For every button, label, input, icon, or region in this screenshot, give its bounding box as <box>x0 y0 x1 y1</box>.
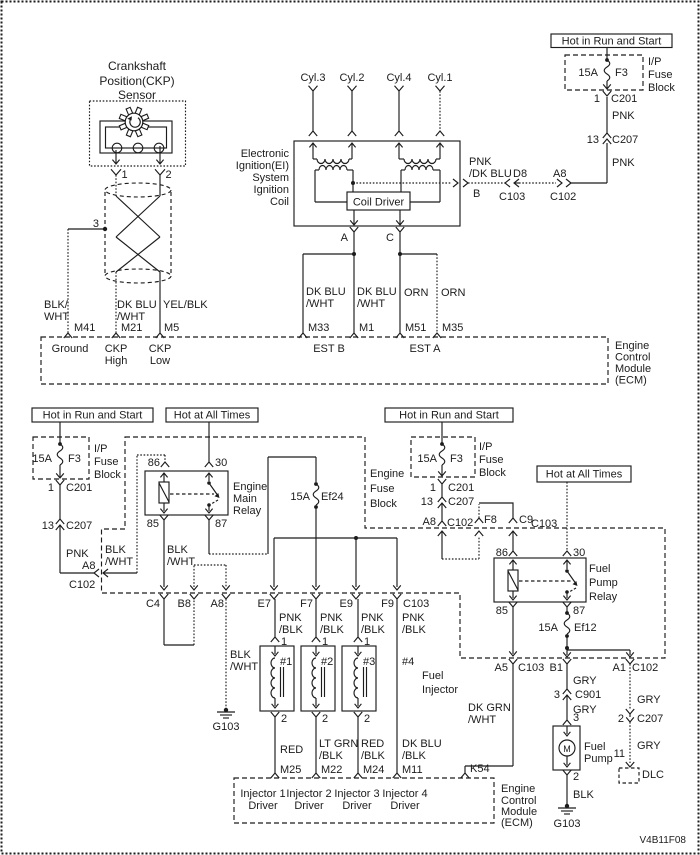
wire B to C103 (dotted) <box>468 182 505 184</box>
wire A8 to ground G103 (dotted) <box>225 599 227 710</box>
svg-text:A8: A8 <box>423 516 436 528</box>
label I/P Fuse Block (mid right) <box>479 441 506 479</box>
svg-text:M: M <box>563 744 571 754</box>
svg-text:D8: D8 <box>513 168 527 180</box>
fuse Ef24 15A <box>290 482 343 509</box>
svg-text:Cyl.4: Cyl.4 <box>386 72 411 84</box>
svg-text:Fuel: Fuel <box>584 741 605 753</box>
coil tower fork Cyl.3 <box>309 131 317 136</box>
fuse Ef12 15A <box>538 611 596 638</box>
svg-text:Pump: Pump <box>584 753 613 765</box>
svg-text:Main: Main <box>233 493 257 505</box>
connector C103 cavity E9 <box>340 594 361 610</box>
I/P fuse block box (top right) <box>565 55 643 90</box>
svg-text:Pump: Pump <box>589 577 618 589</box>
svg-text:3: 3 <box>573 712 579 724</box>
wire C207-C102 (mid right) <box>441 503 443 521</box>
svg-text:/BLK: /BLK <box>361 624 386 636</box>
svg-text:Relay: Relay <box>589 591 618 603</box>
label BLK/WHT (relay 85) <box>167 544 195 568</box>
engine main relay pin 86 <box>148 457 169 469</box>
svg-text:PNK: PNK <box>279 612 302 624</box>
label PNK/BLK F9 <box>402 612 427 636</box>
connector C102 cavity A8 (mid right) <box>423 516 474 529</box>
label Engine Control Module (ECM) top <box>615 340 651 387</box>
svg-text:Position(CKP): Position(CKP) <box>99 74 174 88</box>
primary winding 2 <box>401 166 440 203</box>
svg-text:I/P: I/P <box>648 56 661 68</box>
coil terminal C <box>386 227 404 244</box>
svg-text:BLK: BLK <box>167 544 188 556</box>
svg-text:Control: Control <box>615 352 650 364</box>
svg-text:M11: M11 <box>402 764 423 776</box>
wire relay87 to Ef12 <box>566 607 568 613</box>
svg-text:3: 3 <box>93 218 99 230</box>
wire bus drop E9 <box>352 538 360 590</box>
twisted pair crossover <box>116 196 160 272</box>
svg-text:Injector: Injector <box>422 684 458 696</box>
label BLK/WHT (C102 right) <box>105 544 133 568</box>
svg-text:Driver: Driver <box>248 800 278 812</box>
svg-text:15A: 15A <box>290 491 310 503</box>
wire injector 3 to ECM <box>357 717 359 773</box>
wire injector 1 to ECM <box>274 717 276 773</box>
label DK BLU/WHT (M33) <box>306 286 346 310</box>
svg-text:F3: F3 <box>450 453 463 465</box>
svg-text:30: 30 <box>215 457 227 469</box>
injector supply bus <box>274 537 397 539</box>
coil driver U-box <box>347 192 410 210</box>
svg-text:M1: M1 <box>359 322 374 334</box>
svg-text:Electronic: Electronic <box>241 148 290 160</box>
svg-text:High: High <box>105 355 128 367</box>
wire Cyl.1 to coil (dotted) <box>439 91 441 131</box>
engine main relay switch <box>205 473 219 513</box>
label Injector 1 Driver <box>240 788 285 812</box>
svg-text:C103: C103 <box>531 518 557 530</box>
svg-text:K54: K54 <box>470 763 490 775</box>
svg-text:Fuse: Fuse <box>479 454 503 466</box>
wire Hot at All Times to relay 30 <box>208 422 210 462</box>
connector C102 cavity A8 <box>550 168 576 203</box>
wire Ef12 to B1 junction <box>566 636 568 648</box>
svg-text:C901: C901 <box>575 689 601 701</box>
node injector bus E9 junction <box>354 536 358 540</box>
svg-text:Fuel: Fuel <box>589 563 610 575</box>
fuel pump relay pin 87 <box>563 602 585 617</box>
CKP sensor inner housing <box>100 121 172 153</box>
label DK BLU/WHT <box>117 299 157 323</box>
svg-text:C102: C102 <box>550 191 576 203</box>
svg-text:PNK: PNK <box>402 612 425 624</box>
svg-text:M24: M24 <box>363 764 384 776</box>
svg-text:I/P: I/P <box>94 443 107 455</box>
connector C207 cavity 13 (mid right) <box>421 496 475 508</box>
svg-text:V4B11F08: V4B11F08 <box>639 835 686 846</box>
connector C102 (mid left) <box>69 569 108 591</box>
I/P fuse block box (mid right) <box>411 437 475 477</box>
svg-text:11: 11 <box>614 748 625 760</box>
svg-text:YEL/BLK: YEL/BLK <box>163 299 208 311</box>
wire B1 to C901 <box>566 664 568 689</box>
svg-text:BLK: BLK <box>105 544 126 556</box>
ground G103 (left) <box>213 708 240 733</box>
node primary1 / EST feed junction <box>351 181 355 185</box>
svg-text:Hot in Run and Start: Hot in Run and Start <box>399 410 499 422</box>
coil terminal B <box>463 179 480 200</box>
svg-text:15A: 15A <box>32 453 52 465</box>
fuel pump relay U-box <box>494 558 586 602</box>
EI ignition coil box <box>294 141 460 226</box>
label BLK/WHT <box>44 299 69 323</box>
wire EST A ORN <box>399 232 401 333</box>
svg-text:(ECM): (ECM) <box>615 375 647 387</box>
label DK GRN/WHT <box>468 702 511 726</box>
label Engine Fuse Block (left) <box>370 468 404 510</box>
fuel injector #1 box <box>260 646 294 711</box>
svg-text:2: 2 <box>281 713 287 725</box>
injector 3 pin 1 <box>354 636 370 648</box>
pin M24 <box>354 764 385 778</box>
injector 1 pin 1 <box>271 636 287 648</box>
label PNK/DK BLU <box>469 156 512 180</box>
svg-text:RED: RED <box>361 738 384 750</box>
Hot in Run and Start box (top right) <box>551 34 672 48</box>
label Fuel Pump <box>584 741 613 765</box>
svg-text:Driver: Driver <box>342 800 372 812</box>
wire to F3 mid-left <box>59 422 61 443</box>
svg-text:86: 86 <box>148 457 160 469</box>
svg-text:RED: RED <box>280 744 303 756</box>
svg-text:EST A: EST A <box>410 343 442 355</box>
coil internal arrow Cyl.1 <box>436 143 443 159</box>
svg-text:2: 2 <box>618 713 624 725</box>
label DK BLU/BLK <box>402 738 442 762</box>
svg-text:3: 3 <box>554 689 560 701</box>
connector C103 cavity E7 <box>258 594 279 610</box>
wire BLK/WHT C102 to relay 86 (dotted) <box>103 455 165 573</box>
svg-text:Ground: Ground <box>52 343 89 355</box>
svg-text:(ECM): (ECM) <box>501 817 533 829</box>
svg-text:F9: F9 <box>381 598 394 610</box>
CKP sensor outer box <box>90 101 186 166</box>
svg-text:86: 86 <box>496 547 508 559</box>
wire CKP High from pin1 (dotted) <box>115 175 117 196</box>
svg-text:M25: M25 <box>280 764 301 776</box>
fuse block cavity C9 <box>509 514 533 526</box>
svg-text:Ignition: Ignition <box>254 184 289 196</box>
wire bus drop F9 <box>393 538 401 590</box>
Hot at All Times box (mid) <box>166 408 258 422</box>
secondary winding 1 (Cyl.3-Cyl.2) <box>313 159 352 164</box>
svg-text:C102: C102 <box>447 517 473 529</box>
svg-text:C4: C4 <box>146 598 160 610</box>
svg-text:C102: C102 <box>69 579 95 591</box>
svg-text:1: 1 <box>48 482 54 494</box>
svg-text:DK BLU: DK BLU <box>357 286 397 298</box>
svg-text:Engine: Engine <box>233 481 267 493</box>
fuel pump pin 3 <box>563 712 579 725</box>
wire branch to A1 <box>567 650 634 657</box>
jumper B8 to A8 (above C103, dotted) <box>190 565 230 590</box>
svg-text:M22: M22 <box>321 764 342 776</box>
fuse F3 15A <box>578 58 627 81</box>
coil tower fork Cyl.4 <box>395 131 403 136</box>
svg-text:/BLK: /BLK <box>279 624 304 636</box>
svg-text:A: A <box>341 232 349 244</box>
wire coil output C <box>396 210 404 225</box>
svg-text:/WHT: /WHT <box>306 298 334 310</box>
wire EST A branch to M35 (dotted) <box>400 254 437 333</box>
injector 2 internal <box>312 646 325 708</box>
fuel pump relay actuation line <box>519 580 572 582</box>
Hot in Run and Start box (mid left) <box>32 408 153 422</box>
svg-text:C103: C103 <box>518 662 544 674</box>
svg-text:#2: #2 <box>321 656 333 668</box>
svg-text:Fuse: Fuse <box>370 483 394 495</box>
svg-text:GRY: GRY <box>637 694 661 706</box>
label Fuel Pump Relay <box>589 563 618 603</box>
engine main relay coil <box>159 473 169 513</box>
svg-text:15A: 15A <box>578 67 598 79</box>
svg-text:Hot in Run and Start: Hot in Run and Start <box>562 36 662 48</box>
fuse block cavity F8 <box>475 504 497 526</box>
coil tower fork Cyl.1 <box>436 131 444 136</box>
svg-text:2: 2 <box>166 169 172 181</box>
shield cylinder (drain wire screen) <box>105 183 171 283</box>
svg-text:PNK: PNK <box>361 612 384 624</box>
wire B1 arrow <box>563 648 571 657</box>
wire C103 to injector 3 pin 1 <box>357 599 359 637</box>
wire C201-C207 (mid right) <box>441 484 443 497</box>
svg-text:Cyl.3: Cyl.3 <box>300 72 325 84</box>
wire C103 to C102 (dotted) <box>519 182 556 184</box>
injector 3 internal <box>354 646 367 708</box>
label Engine Main Relay <box>233 481 267 517</box>
Hot in Run and Start box (mid right) <box>385 408 513 422</box>
svg-text:87: 87 <box>215 518 227 530</box>
connector C103 cavity C4 <box>146 594 168 610</box>
svg-text:C207: C207 <box>612 134 638 146</box>
svg-text:G103: G103 <box>213 721 240 733</box>
svg-text:/BLK: /BLK <box>320 624 345 636</box>
label Fuel Injector <box>422 670 458 696</box>
CKP output arrow pin1 <box>112 150 119 164</box>
fuel pump relay pin 86 <box>496 547 517 559</box>
svg-text:BLK/: BLK/ <box>44 299 69 311</box>
wire C9 to fuel pump relay 86 <box>509 531 517 551</box>
svg-text:C201: C201 <box>611 93 637 105</box>
label I/P Fuse Block (top right) <box>648 56 675 94</box>
svg-text:30: 30 <box>573 547 585 559</box>
svg-text:PNK: PNK <box>612 157 635 169</box>
fuel pump pin 2 <box>563 770 579 783</box>
svg-text:C: C <box>386 232 394 244</box>
connector C901 cavity 3 <box>554 689 601 701</box>
wire coil output A <box>350 210 358 225</box>
wire C201 to C207 PNK <box>606 97 608 133</box>
svg-text:System: System <box>252 172 289 184</box>
svg-text:M41: M41 <box>74 322 95 334</box>
svg-text:Block: Block <box>94 469 121 481</box>
injector 1 pin 2 <box>271 712 287 725</box>
pin M33 <box>299 322 330 338</box>
pin M35 <box>433 322 464 338</box>
wire C201-C207 (mid left) <box>59 485 61 519</box>
svg-text:Hot in Run and Start: Hot in Run and Start <box>43 410 143 422</box>
svg-text:M5: M5 <box>164 322 179 334</box>
svg-text:Hot at All Times: Hot at All Times <box>174 410 251 422</box>
Cyl.2 terminal fork <box>348 86 357 91</box>
svg-text:A5: A5 <box>495 662 508 674</box>
svg-text:Cyl.1: Cyl.1 <box>427 72 452 84</box>
svg-text:C207: C207 <box>637 713 663 725</box>
svg-text:BLK: BLK <box>230 649 251 661</box>
svg-text:Driver: Driver <box>294 800 324 812</box>
svg-text:Hot at All Times: Hot at All Times <box>546 469 623 481</box>
wire Ef24 to injector bus <box>315 507 317 587</box>
connector C103 cavity B1 <box>550 659 572 674</box>
svg-text:Injector 2: Injector 2 <box>286 788 331 800</box>
svg-text:I/P: I/P <box>479 441 492 453</box>
label PNK/BLK E7 <box>279 612 304 636</box>
svg-text:Coil: Coil <box>270 196 289 208</box>
svg-text:1: 1 <box>122 169 128 181</box>
svg-text:A8: A8 <box>553 168 566 180</box>
svg-text:Crankshaft: Crankshaft <box>108 59 167 73</box>
svg-text:Fuse: Fuse <box>648 69 672 81</box>
fuel pump relay pin 85 <box>496 602 517 617</box>
svg-text:15A: 15A <box>538 622 558 634</box>
svg-text:E7: E7 <box>258 598 271 610</box>
svg-text:EST B: EST B <box>313 343 345 355</box>
svg-text:Engine: Engine <box>615 340 649 352</box>
connector C102 cavity A1 <box>613 659 659 674</box>
label LT GRN/BLK <box>319 738 358 762</box>
DLC box <box>619 768 639 783</box>
Cyl.1 terminal fork <box>436 86 445 91</box>
label I/P Fuse Block (mid left) <box>94 443 121 481</box>
fuel injector #2 box <box>301 646 335 711</box>
label DK BLU/WHT (M1) <box>357 286 397 310</box>
svg-text:C207: C207 <box>448 496 474 508</box>
pin M1 <box>350 322 374 338</box>
fuse block arrow out (mid left) <box>56 465 64 478</box>
svg-text:C102: C102 <box>632 662 658 674</box>
pin M22 <box>312 764 343 778</box>
DLC pin 11 <box>614 748 635 767</box>
pin M41 <box>64 322 96 338</box>
wire CKP High below shield (dotted) <box>115 272 117 333</box>
svg-text:Relay: Relay <box>233 505 262 517</box>
svg-text:/WHT: /WHT <box>230 661 258 673</box>
coil tower fork Cyl.2 <box>348 131 356 136</box>
connector C207 cavity 13 (mid left) <box>42 519 93 532</box>
svg-text:F7: F7 <box>300 598 313 610</box>
fuse block arrow out (mid right) <box>438 465 446 476</box>
engine main relay pin 85 <box>147 515 168 530</box>
ECM box (bottom) <box>234 778 494 823</box>
fuel pump motor <box>559 726 575 767</box>
fuse F3 15A (mid right) <box>417 442 462 465</box>
I/P fuse block box (mid left) <box>33 437 89 479</box>
pin M21 <box>112 322 143 338</box>
wire C207 to DLC (dotted) <box>629 722 631 763</box>
wire C103 to injector 2 pin 1 <box>315 599 317 637</box>
connector C103 cavity F9 <box>381 594 401 610</box>
svg-text:Engine: Engine <box>370 468 404 480</box>
svg-text:Driver: Driver <box>390 800 420 812</box>
connector C103 cavity A5 <box>495 659 545 674</box>
svg-text:ORN: ORN <box>441 287 466 299</box>
svg-text:DK GRN: DK GRN <box>468 702 511 714</box>
fuel injector #3 box <box>342 646 376 711</box>
label BLK/WHT (A8 ground) <box>230 649 258 673</box>
svg-text:/BLK: /BLK <box>361 750 386 762</box>
svg-text:15A: 15A <box>417 453 437 465</box>
svg-text:C201: C201 <box>448 482 474 494</box>
I/P fuse block arrow out <box>603 81 611 89</box>
Cyl.3 terminal fork <box>309 86 318 91</box>
wire EST B branch to M33 <box>303 254 354 333</box>
wire bus drop E7 <box>270 538 278 590</box>
svg-text:Ignition(EI): Ignition(EI) <box>236 160 289 172</box>
label Engine Control Module (ECM) bottom <box>501 783 537 829</box>
wire PNK to C102 <box>60 525 94 573</box>
svg-text:#1: #1 <box>280 656 292 668</box>
CKP reluctor wheel <box>119 107 148 136</box>
jumper F8 to C9 <box>479 503 513 518</box>
CKP pin 1 terminal <box>111 169 128 181</box>
svg-text:ORN: ORN <box>404 287 429 299</box>
svg-text:PNK: PNK <box>66 548 89 560</box>
wire CKP Low from pin2 <box>159 175 161 196</box>
coil terminal A <box>341 227 359 244</box>
pin M5 <box>156 322 179 338</box>
node EST B branch <box>352 252 356 256</box>
connector C201 cavity 1 (mid right) <box>430 479 474 494</box>
CKP pickup coil winding <box>112 143 164 153</box>
wire relay85 to A5 <box>509 607 517 656</box>
engine fuse block boundary (dashed) <box>102 437 666 658</box>
svg-text:13: 13 <box>421 496 433 508</box>
engine main relay pin 30 <box>205 457 227 469</box>
svg-text:LT GRN: LT GRN <box>319 738 358 750</box>
svg-text:M51: M51 <box>405 322 426 334</box>
wire Hot at All Times to relay 30 (dotted) <box>566 482 568 551</box>
wire ignition feed inside coil (dotted) <box>353 179 458 187</box>
svg-text:F3: F3 <box>68 453 81 465</box>
svg-text:Coil Driver: Coil Driver <box>353 197 405 209</box>
coil internal arrow Cyl.2 <box>348 143 355 159</box>
svg-text:PNK: PNK <box>320 612 343 624</box>
wire C4 arrow <box>160 585 168 590</box>
svg-text:85: 85 <box>496 605 508 617</box>
node EST A branch <box>398 252 402 256</box>
connector C103 cavity F7 <box>300 594 320 610</box>
svg-text:Cyl.2: Cyl.2 <box>339 72 364 84</box>
svg-text:BLK: BLK <box>573 789 594 801</box>
fuel pump relay switch <box>563 560 577 600</box>
ground G103 (fuel pump) <box>554 804 581 830</box>
wire C102 into fuse block F8 <box>438 531 483 559</box>
label PNK/BLK E9 <box>361 612 386 636</box>
svg-text:Block: Block <box>479 467 506 479</box>
svg-text:GRY: GRY <box>573 675 597 687</box>
node pin 3 shield tap <box>93 218 107 231</box>
svg-text:Ef24: Ef24 <box>321 491 344 503</box>
svg-text:/WHT: /WHT <box>105 556 133 568</box>
